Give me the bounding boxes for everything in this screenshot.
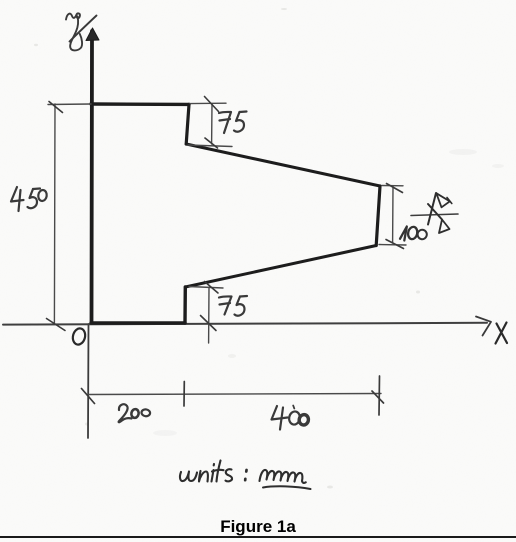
label O (origin) [71,327,87,346]
dim 100 top tick [387,184,403,193]
bottom rule [0,536,516,538]
units: mm text [180,461,247,482]
shape notch lower vertical [183,287,187,323]
dim upper75 extension bottom [188,145,232,147]
bottom dim left tick [82,389,95,404]
units mm word [260,470,311,489]
dim 450 top tick [49,102,63,113]
dim 450 line [53,104,56,324]
dim lower75 extension top [189,287,223,289]
dim 100 extension top [382,185,403,187]
dim upper75 top tick [205,97,219,112]
dim lower75 top tick [205,282,219,294]
label 400 [272,406,310,430]
label 75 lower [219,296,247,316]
y-axis extension below origin [87,324,90,438]
flag symbol short diagonal [428,204,442,220]
bottom dim line [88,394,381,395]
flag symbol top triangle [436,193,450,207]
shape bottom slant [185,246,376,288]
flag symbol line [411,214,458,216]
bottom dim right tick [372,391,384,403]
dim upper75 extension top [190,102,226,104]
label 450 [11,187,47,211]
dim lower75 line [208,288,210,344]
dim 100 bottom tick [386,240,404,249]
dim 450 extension top [48,103,91,106]
shape bottom edge [91,321,185,324]
flag symbol long diagonal [428,193,436,225]
x-axis [3,323,487,325]
x-axis arrowhead [476,317,491,336]
shape right edge [376,186,380,246]
y-axis arrowhead [86,28,99,41]
flag symbol bottom triangle [439,220,450,234]
caption Figure 1a [0,517,516,537]
y-axis [90,31,94,323]
shape top slant [186,144,380,186]
shape notch upper vertical [186,104,189,144]
dim upper75 line [211,104,213,144]
dim 100 line [392,187,394,243]
label 75 upper [219,112,247,134]
label y (cursive) [66,13,97,50]
dim lower75 bottom tick [201,316,217,331]
bottom dim right extension [378,376,381,415]
mm underline [263,486,311,489]
dim 100 extension bottom [379,244,406,247]
label X [496,323,508,344]
dim upper75 bottom tick [205,138,218,148]
label 100 [400,226,428,241]
bottom dim middle tick [183,382,185,407]
shape outline top edge [91,102,189,106]
label 200 [119,404,151,422]
flag symbol top triangle tick [447,198,452,204]
dim 450 bottom tick [47,319,66,331]
